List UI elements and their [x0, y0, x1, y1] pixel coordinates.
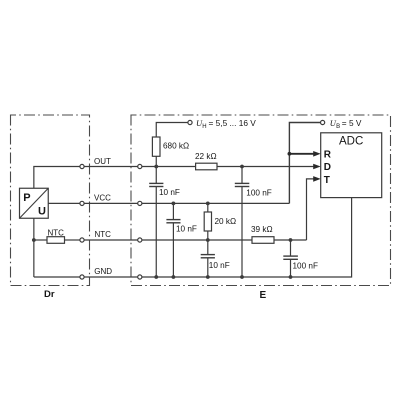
wire NTC between modules [84, 239, 138, 241]
label UH = 5,5 ... 16 V [196, 118, 256, 130]
junction GND/10nF vcc filter [172, 275, 176, 279]
wire riser to ADC T pin [307, 179, 315, 240]
junction 5V/R pin [288, 152, 292, 156]
svg-text:100 nF: 100 nF [293, 261, 319, 270]
wire NTC bus to 39k [142, 239, 252, 241]
terminal NTC (ECU side) [138, 238, 142, 242]
wire 10nF to GND [172, 223, 174, 277]
wire GND bus [142, 198, 352, 277]
arrow into D [313, 164, 321, 170]
arrow into R [313, 151, 321, 157]
wire 100nF upper lead [241, 167, 243, 184]
wire OUT to 10nF [155, 167, 157, 184]
wire UH to 680k [156, 123, 188, 138]
svg-text:GND: GND [94, 267, 112, 276]
wire sensor bottom to NTC node and ground [33, 218, 35, 277]
svg-text:= 5 V: = 5 V [342, 118, 362, 128]
enclosure E (ECU, dash-dot border) [131, 115, 391, 286]
svg-text:T: T [324, 175, 330, 186]
svg-text:39 kΩ: 39 kΩ [251, 225, 273, 234]
resistor 39k [252, 237, 274, 244]
junction VCC/20k [206, 202, 210, 206]
svg-text:100 nF: 100 nF [246, 188, 271, 197]
wire VCC bus to 5V feed [142, 202, 290, 204]
enclosure Dr (sensor module, dash-dot border) [11, 115, 90, 286]
svg-text:10 nF: 10 nF [176, 224, 197, 233]
wire NTC resistor to terminal [65, 239, 80, 241]
junction 39k/100nF [289, 238, 293, 242]
wire OUT to 22k [142, 166, 196, 168]
wire 20k to NTC line [207, 231, 209, 240]
junction GND/100nF out filter [240, 275, 244, 279]
wire sensor output up [34, 167, 80, 189]
wire VCC 10nF upper lead [172, 203, 174, 219]
svg-text:H: H [202, 124, 206, 130]
wire 22k to ADC D pin [217, 166, 315, 168]
capacitor 10nF (OUT filter) [149, 183, 163, 186]
terminal GND (ECU side) [138, 275, 142, 279]
svg-text:R: R [324, 150, 332, 161]
svg-text:10 nF: 10 nF [209, 261, 230, 270]
wire R pin [289, 153, 314, 155]
wire VCC between modules [84, 202, 138, 204]
wire 10nF to GND [207, 258, 209, 277]
resistor 20k [204, 212, 211, 231]
svg-text:= 5,5 ... 16 V: = 5,5 ... 16 V [209, 118, 257, 128]
wire OUT between modules [84, 166, 138, 168]
svg-text:22 kΩ: 22 kΩ [195, 152, 217, 161]
wire 10nF to GND [155, 187, 157, 278]
wire GND between modules [84, 276, 138, 278]
junction VCC/10nF [172, 202, 176, 206]
svg-text:10 nF: 10 nF [159, 188, 180, 197]
wire NTC node to resistor [34, 239, 47, 241]
svg-text:E: E [260, 290, 267, 301]
svg-text:Dr: Dr [44, 289, 55, 300]
junction GND/10nF out filter [154, 275, 158, 279]
wire NTC line to 10nF [207, 240, 209, 255]
wire 39k to T riser [274, 239, 307, 241]
terminal OUT (sensor side) [80, 164, 84, 168]
terminal VCC (ECU side) [138, 201, 142, 205]
svg-text:NTC: NTC [48, 229, 65, 238]
svg-text:20 kΩ: 20 kΩ [215, 217, 237, 226]
svg-text:680 kΩ: 680 kΩ [163, 141, 189, 150]
svg-text:NTC: NTC [95, 230, 112, 239]
junction GND/10nF ntc filter [206, 275, 210, 279]
terminal VCC (sensor side) [80, 201, 84, 205]
svg-text:U: U [38, 206, 46, 218]
resistor NTC [47, 237, 65, 244]
junction GND/100nF t filter [289, 275, 293, 279]
wire 100nF upper lead [290, 240, 292, 256]
capacitor 10nF (NTC filter) [201, 255, 215, 258]
ADC block [321, 133, 382, 198]
svg-text:ADC: ADC [339, 136, 363, 148]
wire 100nF to GND [241, 187, 243, 278]
wire 680k to OUT line [155, 156, 157, 166]
label UB = 5 V [330, 118, 362, 130]
svg-text:OUT: OUT [94, 157, 111, 166]
resistor 22k [196, 163, 217, 170]
wire sensor ground [34, 276, 80, 278]
sensor block P/U [20, 188, 49, 218]
wire VCC to 20k [207, 203, 209, 212]
terminal NTC (sensor side) [80, 238, 84, 242]
svg-text:P: P [23, 192, 30, 204]
terminal GND (sensor side) [80, 275, 84, 279]
terminal OUT (ECU side) [138, 164, 142, 168]
svg-text:B: B [336, 124, 340, 130]
capacitor 10nF (VCC filter) [166, 220, 180, 223]
svg-text:VCC: VCC [94, 193, 111, 202]
supply terminal UB [321, 120, 325, 124]
wire 100nF to GND [290, 259, 292, 277]
junction 22k/100nF [240, 165, 244, 169]
supply terminal UH [188, 120, 192, 124]
capacitor 100nF (OUT filter) [235, 183, 250, 186]
resistor 680k [152, 137, 160, 156]
wire sensor VCC [48, 202, 80, 204]
arrow into T [313, 176, 321, 182]
junction OUT/680k/10nF [154, 165, 158, 169]
svg-text:D: D [324, 162, 331, 173]
wire UB to VCC bus [289, 123, 320, 204]
junction NTC divider (sensor) [32, 238, 36, 242]
junction NTC/20k/10nF [206, 238, 210, 242]
capacitor 100nF (T filter) [283, 256, 298, 259]
